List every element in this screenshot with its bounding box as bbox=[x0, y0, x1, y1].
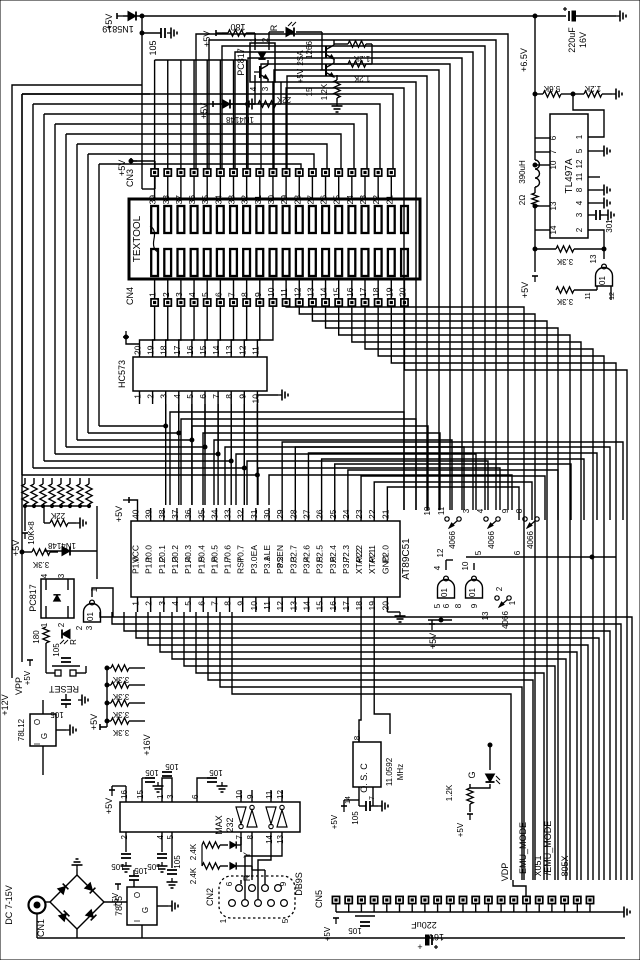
ground at bridge bbox=[76, 869, 78, 875]
MAX232 bottom pins bbox=[125, 832, 127, 845]
svg-text:3.3K: 3.3K bbox=[112, 728, 129, 737]
CN4 pin 15 bbox=[335, 299, 342, 306]
pin20 wire up-left bbox=[126, 337, 140, 344]
svg-text:5: 5 bbox=[281, 918, 290, 923]
svg-text:2: 2 bbox=[120, 834, 129, 839]
CN5 bottom rail bbox=[336, 911, 620, 913]
svg-text:1: 1 bbox=[40, 622, 49, 627]
resistor array R6 bbox=[67, 484, 73, 504]
CN5 pin 7 bbox=[409, 896, 416, 903]
svg-text:25: 25 bbox=[328, 509, 338, 519]
resistor 2ohm winding bbox=[532, 193, 538, 207]
svg-text:34: 34 bbox=[213, 195, 223, 205]
svg-text:9: 9 bbox=[501, 508, 510, 513]
resistor array R4 bbox=[49, 484, 55, 504]
svg-text:R: R bbox=[69, 639, 78, 645]
wires jack to bridge bbox=[46, 901, 51, 903]
svg-text:DB9S: DB9S bbox=[294, 872, 304, 896]
wire data line left vertical bbox=[76, 144, 78, 440]
svg-text:G: G bbox=[141, 907, 150, 913]
svg-text:40: 40 bbox=[131, 509, 141, 519]
svg-text:28: 28 bbox=[292, 195, 302, 205]
svg-text:105: 105 bbox=[165, 762, 179, 771]
wire CN4 pins1-10 to HC573 bbox=[140, 306, 155, 344]
NAND gate U 13 bbox=[596, 264, 613, 286]
svg-text:32: 32 bbox=[240, 195, 250, 205]
svg-text:P3.4: P3.4 bbox=[301, 556, 311, 574]
DB9 holes bottom row 1-5 bbox=[229, 900, 236, 907]
wire P2 line bbox=[374, 482, 532, 520]
svg-text:R: R bbox=[242, 874, 252, 881]
svg-text:29: 29 bbox=[279, 195, 289, 205]
wire control line bbox=[235, 52, 473, 510]
svg-text:4: 4 bbox=[187, 292, 197, 297]
wire control line bbox=[196, 34, 508, 510]
svg-text:P1.3: P1.3 bbox=[170, 556, 180, 574]
wire drops to CN5 bbox=[631, 700, 633, 880]
wire data line bottom staircase bbox=[22, 404, 257, 475]
PC817 internal LED bbox=[258, 53, 265, 59]
wire +5V rail top bbox=[123, 15, 535, 17]
svg-text:TEXTOOL: TEXTOOL bbox=[132, 215, 143, 262]
CN3 pin 39 bbox=[151, 169, 158, 176]
wire P2 line bbox=[322, 459, 584, 520]
svg-text:13: 13 bbox=[481, 611, 490, 620]
wire rail linking CN3 39-32 bbox=[155, 59, 247, 61]
wire control line bbox=[273, 82, 416, 510]
svg-text:28: 28 bbox=[288, 509, 298, 519]
CN4 pin 14 bbox=[322, 299, 329, 306]
wire bus bottom line bbox=[160, 612, 577, 700]
svg-text:33: 33 bbox=[227, 195, 237, 205]
IC MAX232 box bbox=[120, 802, 300, 832]
svg-text:5: 5 bbox=[575, 148, 584, 153]
svg-text:+5V: +5V bbox=[89, 714, 99, 730]
CN5 pin 15 bbox=[510, 896, 517, 903]
svg-text:7805: 7805 bbox=[114, 896, 124, 916]
svg-text:13: 13 bbox=[276, 834, 285, 843]
wire +6.5V rail down bbox=[534, 16, 536, 94]
svg-text:8: 8 bbox=[246, 834, 255, 839]
wire bus bottom line bbox=[196, 612, 544, 700]
svg-text:10: 10 bbox=[423, 506, 432, 515]
LED R bbox=[60, 630, 70, 645]
svg-text:17: 17 bbox=[358, 287, 368, 297]
svg-text:11: 11 bbox=[575, 172, 584, 181]
wire xtal pins down bbox=[359, 612, 361, 742]
wire data line bottom staircase bbox=[44, 404, 231, 461]
wire down from node bbox=[141, 16, 143, 189]
svg-text:3: 3 bbox=[462, 508, 471, 513]
svg-text:4066: 4066 bbox=[487, 531, 496, 549]
svg-text:7: 7 bbox=[211, 394, 221, 399]
svg-text:1: 1 bbox=[133, 394, 143, 399]
socket slots top row bbox=[151, 206, 158, 233]
wires MAX to DB9 bbox=[240, 880, 242, 884]
svg-text:105: 105 bbox=[173, 855, 182, 869]
wire data line top bbox=[88, 154, 314, 169]
wire data line left vertical bbox=[54, 124, 56, 454]
svg-text:3: 3 bbox=[261, 86, 270, 91]
wire control line bbox=[209, 40, 496, 510]
wires CN3 upper pins bbox=[154, 60, 156, 169]
svg-text:38: 38 bbox=[161, 195, 171, 205]
svg-text:P1.7: P1.7 bbox=[223, 556, 233, 574]
svg-text:5.6K: 5.6K bbox=[543, 84, 560, 93]
wire data line bottom staircase bbox=[66, 404, 205, 447]
wire bus bottom line bbox=[232, 612, 511, 700]
resistor array R2 bbox=[31, 484, 37, 504]
svg-text:1: 1 bbox=[508, 600, 517, 605]
svg-text:2.4K: 2.4K bbox=[189, 843, 198, 860]
svg-text:+5V: +5V bbox=[428, 633, 438, 649]
CN4 pin 20 bbox=[401, 299, 408, 306]
svg-text:2: 2 bbox=[75, 625, 84, 630]
svg-text:1.2K: 1.2K bbox=[584, 84, 601, 93]
wire pin2 loop bbox=[574, 230, 604, 249]
IC TL497A box bbox=[550, 114, 588, 238]
svg-text:19: 19 bbox=[367, 601, 377, 611]
CN3 pin 33 bbox=[230, 169, 237, 176]
CN3 pin 32 bbox=[243, 169, 250, 176]
svg-text:6: 6 bbox=[213, 292, 223, 297]
svg-text:11: 11 bbox=[585, 292, 592, 299]
node junction bbox=[140, 14, 144, 18]
svg-text:105: 105 bbox=[148, 40, 158, 55]
svg-text:XTAL2: XTAL2 bbox=[354, 548, 364, 574]
CN3 pin 38 bbox=[164, 169, 171, 176]
svg-text:11: 11 bbox=[262, 601, 272, 610]
svg-text:30: 30 bbox=[266, 195, 276, 205]
svg-text:3.3K: 3.3K bbox=[556, 297, 573, 306]
svg-text:36: 36 bbox=[187, 195, 197, 205]
wire P2 line bbox=[387, 487, 519, 520]
svg-text:3: 3 bbox=[174, 292, 184, 297]
+5V at gates bbox=[429, 624, 435, 630]
CN3 pin 23 bbox=[361, 169, 368, 176]
svg-text:2Ω: 2Ω bbox=[518, 195, 527, 205]
+5V supply symbol top-left bbox=[117, 13, 123, 19]
wire bus line bbox=[339, 306, 570, 880]
svg-text:17: 17 bbox=[172, 345, 182, 355]
svg-text:P3.7: P3.7 bbox=[341, 556, 351, 574]
svg-text:3: 3 bbox=[166, 794, 175, 799]
DC jack CN1 bbox=[29, 897, 46, 914]
CN5 pin 18 bbox=[548, 896, 555, 903]
resistor 3.3K 4 bbox=[111, 718, 129, 724]
svg-text:22: 22 bbox=[367, 509, 377, 519]
svg-text:P3.3: P3.3 bbox=[288, 556, 298, 574]
svg-text:7: 7 bbox=[235, 834, 244, 839]
svg-text:232: 232 bbox=[225, 817, 235, 832]
wire data line left vertical bbox=[65, 134, 67, 447]
wire bus bottom line bbox=[100, 612, 632, 700]
svg-text:11: 11 bbox=[265, 790, 274, 799]
svg-text:24: 24 bbox=[341, 509, 351, 519]
CN3 pin 24 bbox=[348, 169, 355, 176]
wire data line bottom staircase bbox=[33, 404, 244, 468]
svg-text:O. S. C: O. S. C bbox=[359, 763, 369, 793]
svg-text:4: 4 bbox=[433, 565, 442, 570]
svg-text:33: 33 bbox=[223, 509, 233, 519]
array common rail bbox=[25, 505, 89, 507]
svg-text:12: 12 bbox=[609, 292, 616, 300]
svg-text:105: 105 bbox=[145, 768, 159, 777]
svg-text:6: 6 bbox=[225, 881, 234, 886]
svg-text:36: 36 bbox=[183, 509, 193, 519]
svg-text:Y: Y bbox=[242, 852, 252, 858]
+5V at CN3 bbox=[131, 158, 137, 164]
CN5 pin 5 bbox=[383, 896, 390, 903]
svg-text:3: 3 bbox=[85, 625, 94, 630]
svg-text:15: 15 bbox=[332, 287, 342, 297]
wire P2 line bbox=[361, 476, 545, 520]
resistor 180 bbox=[43, 627, 49, 643]
svg-text:34: 34 bbox=[209, 509, 219, 519]
svg-text:P1.0: P1.0 bbox=[131, 556, 141, 574]
svg-text:1266: 1266 bbox=[305, 41, 314, 59]
wire data line left vertical bbox=[87, 154, 89, 433]
CN4 pin 2 bbox=[164, 299, 171, 306]
CN5 +5V cap bbox=[333, 918, 339, 924]
CN5 pin 2 bbox=[345, 896, 352, 903]
svg-text:+6.5V: +6.5V bbox=[519, 48, 529, 72]
svg-text:5: 5 bbox=[166, 834, 175, 839]
svg-text:21: 21 bbox=[380, 509, 390, 519]
svg-text:O: O bbox=[33, 719, 42, 725]
svg-text:9: 9 bbox=[237, 394, 247, 399]
svg-text:+5V: +5V bbox=[117, 160, 127, 176]
svg-text:5: 5 bbox=[474, 550, 483, 555]
IC HC573 box bbox=[133, 357, 267, 391]
svg-text:6: 6 bbox=[198, 394, 208, 399]
svg-text:19: 19 bbox=[146, 345, 156, 355]
svg-text:1.2K: 1.2K bbox=[320, 83, 329, 100]
capacitor 105 pins4-5 bbox=[161, 845, 163, 852]
svg-text:1N4148: 1N4148 bbox=[225, 115, 254, 124]
regulator 78L12 bbox=[30, 714, 56, 746]
wire bus bottom line bbox=[124, 612, 610, 700]
svg-text:13: 13 bbox=[224, 345, 234, 355]
wire data line top bbox=[44, 114, 367, 169]
capacitor 105 bbox=[61, 699, 71, 701]
resistor array R3 bbox=[40, 484, 46, 504]
svg-text:10: 10 bbox=[461, 561, 470, 570]
svg-text:301: 301 bbox=[605, 219, 614, 233]
svg-text:I: I bbox=[133, 920, 142, 922]
wire control line bbox=[248, 58, 462, 510]
wire bus bottom line bbox=[148, 612, 588, 700]
resistor array R1 bbox=[22, 484, 28, 504]
svg-text:1: 1 bbox=[575, 134, 584, 139]
wire data line bottom staircase bbox=[77, 404, 192, 440]
svg-text:4: 4 bbox=[172, 394, 182, 399]
svg-text:TL497A: TL497A bbox=[564, 158, 575, 193]
svg-text:3: 3 bbox=[157, 601, 167, 606]
+5V bbox=[27, 660, 33, 666]
CN4 pin 19 bbox=[388, 299, 395, 306]
svg-text:AT89C51: AT89C51 bbox=[401, 538, 412, 580]
svg-text:G: G bbox=[467, 771, 477, 778]
diode 1N5819 bbox=[128, 12, 136, 21]
svg-text:4: 4 bbox=[249, 86, 258, 91]
CN5 pin 21 bbox=[586, 896, 593, 903]
svg-text:180: 180 bbox=[230, 22, 245, 32]
MAX232 buffers bbox=[236, 807, 246, 824]
capacitor 105 pin6 bbox=[197, 778, 207, 790]
svg-text:P1.1: P1.1 bbox=[144, 556, 154, 574]
svg-text:14: 14 bbox=[319, 287, 329, 297]
svg-text:13: 13 bbox=[589, 254, 598, 263]
svg-text:P3.6: P3.6 bbox=[328, 556, 338, 574]
svg-text:2: 2 bbox=[161, 292, 171, 297]
CN4 pin 8 bbox=[243, 299, 250, 306]
svg-text:23: 23 bbox=[354, 509, 364, 519]
electrolytic 220uF 16V bbox=[535, 15, 566, 17]
svg-text:MAX: MAX bbox=[214, 815, 224, 835]
svg-text:9: 9 bbox=[246, 794, 255, 799]
resistor 1.2K emitter bbox=[334, 80, 340, 98]
svg-text:14: 14 bbox=[301, 601, 311, 611]
bottom rail bbox=[37, 937, 625, 939]
svg-text:30: 30 bbox=[262, 509, 272, 519]
svg-text:32: 32 bbox=[236, 509, 246, 519]
svg-text:6: 6 bbox=[513, 550, 522, 555]
resistor 1.2K base bbox=[348, 41, 366, 47]
wire HC573 outputs down to AT89C51 bbox=[256, 404, 258, 505]
svg-text:PC817: PC817 bbox=[28, 584, 38, 612]
svg-text:01: 01 bbox=[86, 612, 95, 621]
svg-text:4066: 4066 bbox=[526, 531, 535, 549]
svg-text:9: 9 bbox=[279, 881, 288, 886]
svg-text:MHz: MHz bbox=[396, 764, 405, 780]
wire control line bbox=[287, 76, 427, 510]
wire bus line center bbox=[225, 447, 464, 510]
svg-text:220uF: 220uF bbox=[567, 27, 577, 53]
CN3 pin 29 bbox=[283, 169, 290, 176]
wire data line top bbox=[99, 164, 301, 169]
svg-text:4: 4 bbox=[40, 573, 49, 578]
svg-text:P1.5: P1.5 bbox=[196, 556, 206, 574]
wire data line left vertical bbox=[32, 104, 34, 468]
CN4 pin 3 bbox=[177, 299, 184, 306]
svg-text:X051: X051 bbox=[533, 855, 543, 876]
CN5 pin 3 bbox=[358, 896, 365, 903]
svg-text:I: I bbox=[33, 743, 42, 745]
IC AT89C51 box bbox=[131, 521, 400, 597]
wire data line top bbox=[77, 144, 327, 169]
svg-text:17: 17 bbox=[341, 601, 351, 611]
svg-text:01: 01 bbox=[440, 588, 449, 597]
VCC +5V bbox=[129, 500, 138, 508]
svg-text:29: 29 bbox=[275, 509, 285, 519]
wire bus bottom line bbox=[136, 612, 599, 700]
svg-text:R: R bbox=[269, 24, 279, 31]
CN4 pin 18 bbox=[375, 299, 382, 306]
wire +5V branch left bbox=[534, 238, 536, 272]
svg-text:EA: EA bbox=[249, 545, 259, 557]
CN5 pin 9 bbox=[434, 896, 441, 903]
svg-text:RST: RST bbox=[236, 557, 246, 574]
CN5 pin 4 bbox=[371, 896, 378, 903]
capacitor 105 pin2 bbox=[125, 845, 127, 852]
DB9 holes top row 6-9 bbox=[236, 885, 243, 892]
+5V for opto LED bbox=[216, 30, 222, 36]
wire osc top pin8 bbox=[358, 736, 360, 742]
svg-text:VDP: VDP bbox=[500, 863, 510, 882]
svg-text:+5V: +5V bbox=[104, 798, 114, 814]
resistor 1.2K bbox=[584, 91, 602, 97]
wire data line top bbox=[22, 94, 393, 169]
svg-text:1: 1 bbox=[219, 918, 228, 923]
wire P2 line bbox=[348, 470, 558, 520]
svg-text:7: 7 bbox=[549, 149, 558, 154]
CN4 pin 7 bbox=[230, 299, 237, 306]
svg-text:2.4K: 2.4K bbox=[189, 867, 198, 884]
CN3 pin 31 bbox=[256, 169, 263, 176]
svg-text:CN4: CN4 bbox=[125, 287, 135, 305]
svg-text:10: 10 bbox=[549, 160, 558, 169]
svg-text:105: 105 bbox=[348, 926, 362, 935]
svg-text:9: 9 bbox=[236, 601, 246, 606]
CN4 pin 11 bbox=[283, 299, 290, 306]
svg-text:78L12: 78L12 bbox=[17, 718, 26, 741]
capacitor bbox=[61, 657, 71, 659]
svg-text:105: 105 bbox=[52, 643, 61, 657]
pin10 to ground bbox=[257, 395, 278, 399]
svg-text:6: 6 bbox=[191, 794, 200, 799]
wire bus line center bbox=[214, 440, 452, 510]
CN4 pin 4 bbox=[190, 299, 197, 306]
wire bus line center bbox=[203, 433, 440, 510]
CN3 pin 28 bbox=[296, 169, 303, 176]
svg-text:8: 8 bbox=[353, 735, 362, 740]
opto PC817 U: box bbox=[250, 43, 275, 82]
svg-text:P3.2: P3.2 bbox=[275, 556, 285, 574]
TL497A left pins 6 7 10 13 14 bbox=[535, 137, 550, 139]
svg-text:2: 2 bbox=[146, 394, 156, 399]
AT89C51 top pins 40..21 bbox=[137, 508, 139, 521]
svg-text:18: 18 bbox=[354, 601, 364, 611]
capacitor 105 bbox=[142, 32, 161, 34]
resistor 1.2K second bbox=[348, 61, 366, 67]
wire bus line bbox=[286, 306, 524, 880]
svg-text:1: 1 bbox=[131, 601, 141, 606]
svg-text:26: 26 bbox=[315, 509, 325, 519]
CN4 pin 1 bbox=[151, 299, 158, 306]
wire data line top bbox=[55, 124, 354, 169]
wire data line top bbox=[66, 134, 341, 169]
svg-text:1: 1 bbox=[148, 292, 158, 297]
svg-text:+5V: +5V bbox=[114, 506, 124, 522]
svg-text:+5V: +5V bbox=[520, 282, 530, 298]
svg-text:2: 2 bbox=[495, 586, 504, 591]
wire data line top bbox=[33, 104, 380, 169]
svg-text:10: 10 bbox=[266, 287, 276, 297]
svg-text:2: 2 bbox=[144, 601, 154, 606]
svg-text:12: 12 bbox=[292, 287, 302, 297]
svg-text:2: 2 bbox=[57, 622, 66, 627]
svg-text:8: 8 bbox=[454, 603, 463, 608]
svg-text:3: 3 bbox=[575, 212, 584, 217]
wire bus line bbox=[326, 306, 558, 880]
CN5 pin 17 bbox=[536, 896, 543, 903]
resistor array R5 bbox=[58, 484, 64, 504]
CN5 pin 12 bbox=[472, 896, 479, 903]
svg-text:11: 11 bbox=[279, 288, 289, 297]
svg-text:+5V: +5V bbox=[202, 31, 212, 47]
svg-text:GND: GND bbox=[380, 555, 390, 574]
